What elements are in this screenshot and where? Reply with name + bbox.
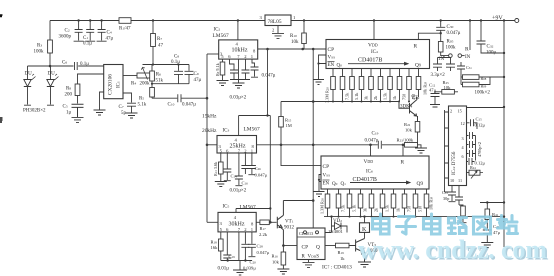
svg-text:R: R	[465, 47, 469, 53]
wire right bus x504	[503, 21, 505, 248]
ground under R16	[277, 269, 289, 274]
svg-text:9012: 9012	[284, 226, 295, 231]
node dots x313 bus	[312, 144, 315, 147]
svg-text:EN: EN	[328, 63, 335, 68]
wire Q0-Q9 arrow inside IC6	[350, 181, 410, 184]
svg-text:0.01μ: 0.01μ	[218, 267, 230, 272]
wire jog y208.5 to IC5 pin4	[236, 209, 270, 213]
capacitor C32 100u	[477, 21, 505, 54]
resistor R09	[461, 84, 463, 86]
svg-text:C15: C15	[476, 117, 483, 122]
node dots on bus	[206, 97, 209, 100]
svg-text:1M: 1M	[286, 123, 292, 128]
tone decoder IC3 LM567 box	[217, 136, 257, 154]
node dot C30/R05	[440, 32, 442, 34]
svg-text:5.1k: 5.1k	[354, 92, 359, 100]
wire x313 bus	[312, 49, 314, 228]
watermark line 2 www.cndzz.com	[358, 235, 549, 266]
svg-text:10: 10	[450, 178, 454, 183]
op-amp preamp IC1 CX20106	[104, 65, 123, 99]
wire chain bus y101.5	[281, 101, 399, 103]
svg-text:10kHz: 10kHz	[232, 48, 248, 54]
capacitor under IC2 pin2	[242, 59, 250, 79]
ground on line y260.5	[233, 261, 247, 276]
svg-text:LM567: LM567	[244, 127, 260, 133]
svg-text:0.1μ: 0.1μ	[83, 41, 92, 46]
VSS EN bracket IC4	[319, 55, 327, 79]
wire caps common	[475, 136, 477, 161]
svg-text:0.047μ: 0.047μ	[257, 250, 270, 255]
voltage regulator 78L05	[265, 15, 291, 26]
wire IC1 bottom pin to C7	[123, 93, 132, 103]
svg-text:10k: 10k	[291, 40, 299, 45]
ground under IC2 caps	[230, 80, 250, 89]
svg-text:1μ: 1μ	[66, 111, 72, 116]
svg-text:R1/47: R1/47	[119, 27, 131, 32]
wire D7556 vdd to bus	[467, 107, 505, 109]
svg-text:0.1μ: 0.1μ	[80, 62, 89, 67]
capacitor C16 under IC3 pin7	[235, 153, 243, 186]
watermark line 1 (blue CJK)	[373, 214, 518, 234]
capacitor C28a on IC5 pin2	[241, 232, 249, 261]
svg-text:C19: C19	[229, 254, 236, 259]
svg-text:R17: R17	[260, 226, 267, 231]
transistor VT1 9012	[277, 201, 283, 246]
ground under C41	[481, 243, 493, 248]
wire x270 drop to VT1 base node	[269, 116, 271, 223]
resistor R3	[48, 40, 53, 53]
svg-text:R18: R18	[211, 240, 218, 245]
wire input line y66	[28, 65, 104, 67]
capacitor C15 0.12u	[467, 119, 478, 129]
capacitor C14 under IC3 pin6	[223, 153, 231, 181]
resistor 1.5k bottom	[459, 205, 463, 206]
resistor R6 51k	[151, 65, 153, 72]
capacitor under IC2 pin6	[230, 59, 239, 79]
svg-text:+9V: +9V	[492, 16, 503, 22]
svg-text:15: 15	[458, 109, 462, 114]
svg-text:R13 3.6k: R13 3.6k	[213, 161, 218, 176]
svg-text:C33: C33	[442, 190, 448, 195]
svg-text:750: 750	[402, 94, 407, 100]
capacitor C6 (series)	[75, 62, 78, 70]
svg-text:12: 12	[461, 121, 465, 126]
capacitor stack right of D7556 (a)	[467, 132, 476, 139]
wire IC2 pin7 down	[238, 59, 240, 79]
svg-text:0.01μ×2: 0.01μ×2	[230, 189, 247, 194]
svg-text:30p: 30p	[443, 196, 449, 201]
svg-text:3.3M R20: 3.3M R20	[325, 87, 330, 103]
svg-text:IC7 : CD4013: IC7 : CD4013	[322, 265, 352, 271]
svg-text:C26: C26	[255, 166, 262, 171]
counter IC4 CD4017B box	[326, 40, 430, 69]
wire IC2 pin4 to rail	[237, 21, 239, 40]
capacitor electrolytic 3.3u (a)	[433, 58, 442, 72]
svg-text:R22: R22	[404, 122, 411, 127]
svg-text:6: 6	[462, 154, 464, 159]
ground IC6 VSS	[314, 192, 325, 197]
resistor R15 1M	[280, 102, 282, 117]
capacitor stack right of D7556 (b)	[467, 141, 476, 148]
svg-text:5p: 5p	[121, 111, 127, 116]
capacitor C28b on IC5 pin1	[248, 232, 256, 257]
wire IC1 pin left to R8	[78, 74, 104, 84]
wire R6 bottom node	[151, 81, 153, 87]
photodiode DU2	[47, 66, 54, 105]
svg-text:C31: C31	[466, 65, 472, 70]
svg-text:47μ: 47μ	[194, 78, 202, 83]
svg-text:R16: R16	[272, 254, 279, 259]
svg-text:R: R	[414, 44, 418, 50]
pin 2 78L05 and ground	[277, 26, 279, 34]
svg-text:1.5k: 1.5k	[383, 92, 388, 100]
svg-text:R9 9.1k: R9 9.1k	[215, 62, 220, 76]
svg-text:5.1k: 5.1k	[138, 103, 147, 108]
wire branch right bus to R41	[480, 202, 504, 204]
melody IC U8 D7556 box (vertical)	[449, 106, 467, 186]
wire IC2 pin3 lead	[207, 53, 219, 55]
svg-text:3600p: 3600p	[59, 35, 72, 40]
labels chain 2 values (rotated)	[320, 196, 434, 214]
ground VT3 emitter	[358, 262, 371, 267]
svg-text:0.047μ: 0.047μ	[182, 103, 196, 108]
wire C31/R08 left bus	[460, 73, 462, 85]
svg-text:1k: 1k	[340, 256, 345, 261]
resistor R13 under IC3 pin5	[220, 153, 222, 162]
ground under R9	[217, 81, 229, 86]
svg-text:10k R29: 10k R29	[423, 81, 428, 95]
potentiometer R4 200k	[123, 75, 137, 77]
resistor R19 1k	[336, 243, 350, 248]
svg-text:47: 47	[158, 43, 164, 48]
node dots chain2 bus	[330, 215, 416, 217]
wire R3 to node	[49, 53, 51, 66]
svg-text:LM567: LM567	[240, 205, 256, 211]
svg-text:Q9: Q9	[417, 181, 424, 187]
VSS EN bracket IC6	[319, 175, 321, 192]
svg-text:IC12 D7556: IC12 D7556	[452, 151, 457, 175]
capacitor C4	[97, 21, 107, 42]
wire CP branch to IC6	[281, 145, 321, 166]
svg-text:EN: EN	[323, 182, 330, 187]
resistor R16 10k	[282, 246, 284, 253]
svg-text:C20: C20	[250, 260, 257, 265]
op-amp U IC2 LM567 box	[219, 40, 258, 59]
wire top +9V rail	[50, 20, 515, 22]
svg-text:78L05: 78L05	[268, 19, 282, 25]
capacitor under D7556 pin11	[455, 186, 463, 206]
svg-text:0.047μ: 0.047μ	[365, 139, 379, 144]
resistor R10 10k (rail to CP line)	[303, 21, 305, 34]
svg-text:Q: Q	[316, 245, 320, 251]
wire VDD stub IC6	[370, 145, 372, 156]
node dots on y64.5	[152, 63, 154, 65]
capacitor C41 47u	[483, 220, 492, 243]
svg-text:5.1k: 5.1k	[352, 204, 357, 212]
svg-text:3: 3	[462, 136, 464, 141]
capacitor C8	[174, 65, 183, 84]
wire 3.3u caps top link	[438, 56, 451, 58]
capacitor under D7556 pin10	[448, 186, 456, 202]
resistor chain R20..R29 under IC4	[331, 69, 421, 102]
svg-text:2.2k: 2.2k	[259, 232, 268, 237]
ground under IC1 left	[94, 110, 106, 115]
svg-text:15kHz: 15kHz	[202, 114, 217, 120]
resistor R08	[461, 76, 463, 78]
wire y64.5 local bus	[143, 64, 190, 66]
svg-text:510: 510	[418, 206, 423, 212]
node junction at x50 y66	[49, 65, 52, 68]
node dot VT1 base line	[269, 221, 272, 224]
node dots right bus	[503, 52, 505, 218]
svg-text:0.047μ: 0.047μ	[262, 74, 276, 79]
svg-text:47μ: 47μ	[429, 88, 437, 93]
svg-text:100μ: 100μ	[486, 50, 497, 55]
resistor R9 under IC2 pin5	[222, 59, 224, 62]
wire IC1 lower-left pin to ground	[100, 92, 104, 110]
svg-text:CP: CP	[302, 245, 309, 251]
node rail junction dots	[77, 19, 505, 21]
wire Q to R19	[325, 245, 336, 247]
terminal IN right	[458, 54, 462, 58]
wire y98 line with C10	[152, 97, 207, 99]
node dots on CP line	[266, 48, 269, 51]
svg-text:750: 750	[407, 206, 412, 212]
svg-text:DU: DU	[48, 72, 56, 77]
svg-text:R15: R15	[285, 118, 292, 123]
wire R08 R09 to right bus	[479, 77, 504, 85]
capacitor C31	[457, 62, 465, 73]
resistor R stub from rail	[469, 21, 471, 51]
wire left frequency bus x207	[206, 54, 208, 222]
wire ground line y260.5	[221, 260, 252, 262]
svg-text:2: 2	[450, 109, 452, 114]
svg-text:16k: 16k	[211, 245, 219, 250]
diode VD2 1N4001	[332, 217, 348, 233]
svg-text:47μ: 47μ	[106, 36, 114, 41]
transistor VT2 3DK4	[399, 97, 418, 122]
resistor R05 100k	[440, 33, 442, 41]
svg-text:100k: 100k	[34, 49, 45, 54]
capacitor C26 under IC3 pin2	[241, 153, 249, 174]
svg-text:3DK4: 3DK4	[400, 105, 413, 110]
svg-text:10k: 10k	[405, 128, 413, 133]
node dots on chain bus	[312, 100, 410, 103]
terminal IN left	[441, 52, 449, 56]
svg-text:7.5k: 7.5k	[345, 92, 350, 100]
svg-text:1.5k: 1.5k	[385, 204, 390, 212]
resistor R41	[486, 203, 488, 210]
wire CD4013 top right to VD2	[325, 226, 332, 233]
ground under C5	[72, 117, 84, 122]
svg-text:CP: CP	[323, 164, 330, 170]
wire IC5 pin3 lead	[207, 221, 218, 223]
svg-text:4700p×2: 4700p×2	[477, 142, 482, 157]
svg-text:0.12μ: 0.12μ	[475, 123, 486, 128]
resistor R8	[75, 84, 80, 96]
capacitor C7	[127, 103, 136, 112]
svg-text:1N4001: 1N4001	[328, 229, 344, 234]
svg-text:30kHz: 30kHz	[229, 222, 245, 228]
wire R8 to C5	[77, 96, 79, 104]
flip-flop IC7 CD4013	[297, 228, 325, 260]
svg-text:51k: 51k	[156, 79, 164, 84]
wire IC2 pin8 drop x267.5	[267, 49, 269, 116]
capacitor stack right of D7556 (c)	[467, 150, 476, 157]
capacitor C1	[85, 21, 95, 42]
svg-text:0.1μ: 0.1μ	[171, 60, 180, 65]
resistor R7 (from rail)	[152, 21, 154, 34]
svg-text:3.3μ×2: 3.3μ×2	[431, 73, 446, 78]
relay K	[364, 217, 366, 223]
ground R23	[415, 148, 427, 153]
wire R stub IC6	[402, 145, 404, 156]
svg-text:1.3M R30: 1.3M R30	[320, 198, 325, 214]
potentiometer R24	[467, 172, 470, 174]
svg-text:K: K	[362, 227, 367, 233]
svg-text:200k: 200k	[140, 82, 151, 87]
svg-text:R23/100k: R23/100k	[397, 138, 414, 143]
wire IC5 pin7 to ground line	[238, 232, 240, 261]
node dots y144.8	[280, 144, 283, 147]
wire D7556 left bus	[445, 110, 453, 192]
capacitor electrolytic 3.3u (b)	[446, 58, 455, 72]
svg-text:100k×2: 100k×2	[475, 91, 491, 96]
ground under C7	[126, 113, 138, 118]
svg-text:R24: R24	[470, 165, 476, 170]
svg-text:C16: C16	[242, 181, 249, 186]
transistor VT3 8050	[349, 239, 365, 262]
svg-text:0.03μ×2: 0.03μ×2	[230, 96, 247, 101]
ground under R13	[215, 182, 227, 187]
svg-text:20kHz: 20kHz	[202, 128, 217, 134]
ground IC4 VSS	[313, 80, 324, 85]
svg-text:0.12μ: 0.12μ	[475, 161, 486, 166]
capacitor C13 under IC2 pin1	[251, 59, 259, 77]
svg-text:R: R	[401, 160, 405, 166]
svg-text:10k R39: 10k R39	[429, 196, 434, 210]
resistor chain 2 under IC6	[325, 189, 429, 217]
svg-text:200: 200	[65, 93, 73, 98]
capacitor C5 electrolytic	[72, 104, 84, 117]
capacitor 0.12u lower	[467, 158, 475, 165]
svg-text:www. cndzz. com: www. cndzz. com	[358, 235, 547, 264]
svg-text:10k: 10k	[272, 260, 280, 265]
svg-text:C28: C28	[257, 244, 264, 249]
counter IC6 CD4017B box	[321, 156, 429, 189]
svg-text:PH302B×2: PH302B×2	[23, 109, 46, 114]
svg-text:R41: R41	[492, 212, 499, 217]
svg-text:100k: 100k	[446, 46, 457, 51]
svg-text:0.039μ: 0.039μ	[243, 266, 256, 271]
wire IC2 pin8 / CP line	[258, 48, 326, 50]
svg-text:LM567: LM567	[213, 33, 229, 39]
svg-text:CP: CP	[328, 47, 335, 53]
svg-text:CD4017B: CD4017B	[358, 58, 382, 64]
capacitor C10 (series)	[178, 94, 181, 102]
wire Q0-Q9 arrow inside IC4	[348, 62, 408, 65]
wire C8 C9 bottoms bus	[152, 83, 189, 85]
photodiode DU1	[24, 66, 31, 105]
svg-text:IN: IN	[465, 55, 471, 60]
svg-text:0.047μ: 0.047μ	[255, 173, 268, 178]
resistor R18 under IC5 pin5	[220, 232, 222, 239]
ground under CD4013	[303, 260, 315, 268]
resistor R1	[119, 18, 131, 24]
capacitor C9 electrolytic	[185, 65, 194, 84]
wire IC4 R pin to C30 node	[418, 33, 440, 39]
svg-text:CX20106: CX20106	[108, 74, 114, 95]
wire jog y115.5 to IC3 pin4	[239, 116, 271, 136]
wire IC3 pin3 lead	[207, 144, 217, 146]
wire VT1 collector branch	[283, 200, 313, 202]
capacitor C19b under IC5 pin6	[223, 232, 231, 261]
wire y144.8 line (IC3 pin8 out)	[257, 144, 404, 146]
svg-text:0.047μ: 0.047μ	[447, 31, 461, 36]
svg-text:7.5k: 7.5k	[341, 204, 346, 212]
svg-text:DU: DU	[25, 72, 33, 77]
capacitor C26b under IC3 pin1	[248, 153, 256, 175]
wire left branch down from rail	[49, 21, 51, 41]
capacitor C30	[436, 21, 445, 34]
capacitor C19 series	[378, 141, 381, 149]
labels chain 1 values (rotated)	[325, 81, 428, 103]
resistor R22 10k	[415, 122, 420, 133]
wire chain2 bus y216.6	[324, 216, 504, 218]
resistor R17 2.2k	[256, 221, 260, 223]
svg-text:11: 11	[458, 178, 462, 183]
wire IC4 VDD to rail	[373, 21, 375, 40]
resistor R5	[150, 88, 155, 98]
tone decoder IC5 LM567 box	[218, 212, 256, 232]
resistor R23 100k	[405, 143, 418, 148]
capacitor C2	[74, 21, 84, 42]
edge scan mark left	[0, 15, 3, 122]
wire VT1 emitter to CP	[282, 244, 285, 247]
svg-text:R19: R19	[338, 250, 345, 255]
